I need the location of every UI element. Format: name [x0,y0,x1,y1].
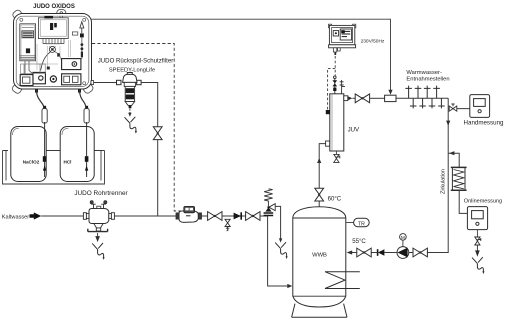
filter drain dashes [129,109,131,114]
suction lance right connector [85,106,88,111]
feed arrow [30,212,42,219]
controller base stripes [20,56,35,59]
mid fittings [47,53,60,69]
JUV body [330,94,344,151]
coil branch arrow [449,151,454,155]
filter head [123,73,137,83]
enclosure inner [16,16,89,86]
water meter flange L [176,213,179,219]
valve V6 [413,248,427,257]
valve V7 [357,248,371,257]
JUV inlet flange [326,141,330,146]
box outlet fitting [91,81,94,85]
separator vent knob left [90,201,96,209]
canister NaClO2 [11,127,46,182]
tube to pumps [41,52,51,71]
handmessung valve [449,104,457,111]
svg-text:Entnahmestellen: Entnahmestellen [406,77,449,83]
hose gland right [78,89,81,93]
flow arrow down [446,121,450,126]
circulation pump [397,247,409,259]
pipe [222,215,246,217]
valve V2 [208,212,222,221]
svg-text:HCl: HCl [64,160,72,165]
manifold pipe [396,97,448,99]
safety discharge pipe [275,206,280,238]
filter ring1 [126,88,134,93]
filter flange right [137,80,142,84]
water meter register [184,206,195,212]
filter drain nipple [129,105,132,108]
lance right marks [85,156,89,170]
suction lance left connector [43,106,46,111]
separator drain outlet [92,243,105,260]
injection fittings [81,43,84,57]
separator funnel [94,224,103,229]
check valve return [378,249,385,256]
JUV top sensor fitting [340,80,345,94]
canister HCl [60,127,94,182]
pump right lower inners [64,76,78,82]
svg-text:Handmessung: Handmessung [464,120,504,127]
svg-text:Kaltwasser: Kaltwasser [2,214,29,220]
JUV top vent fitting [332,76,337,94]
filter flange left [117,80,122,84]
JUV outlet flange [344,96,348,101]
mounting ear bottom-right [82,83,94,95]
svg-text:55°C: 55°C [352,238,366,245]
dosing pump left head [39,76,43,80]
suction lance right head [84,109,89,124]
arrow after JUV [348,96,353,100]
dashed impulse line box to meter [92,44,184,212]
suction lance left head [42,109,47,124]
separator drain pan [88,229,108,232]
label plate [72,32,77,35]
pump right upper head [72,62,77,67]
svg-text:WWB: WWB [312,253,327,259]
controller button [26,48,30,53]
pipe to JUV [319,144,325,189]
arrow into tank [287,284,292,288]
onlinemessung device [467,207,487,230]
faint interior lines [36,40,71,70]
safety valve body [265,204,275,212]
safety discharge arrow [279,238,282,242]
tank top outlet pipe [318,201,320,207]
control line box to flow sensor [92,19,391,90]
arrow into tank right [347,250,353,254]
JUV top dark bits [333,88,336,91]
drip tray [3,151,105,185]
corner screw BR [83,82,86,85]
top right small fitting [60,16,63,18]
lance left marks [43,156,47,170]
dashed sensor cable [328,68,336,109]
separator top center stub [97,206,101,208]
control box body [328,24,355,28]
suction hose right [80,90,87,112]
injection riser arrow [80,22,84,33]
pipe into tank [352,252,357,254]
svg-text:NaClO2: NaClO2 [23,160,40,165]
svg-text:230V/50Hz: 230V/50Hz [361,38,385,44]
pipe [371,252,378,254]
valve V5 [355,94,369,103]
filter drain arrow [128,113,131,117]
flow sensor [385,95,396,101]
analyser drain pipe [476,230,478,237]
mounting ear top-left [12,9,23,20]
control box base [329,45,356,48]
pipe to sensor [370,97,385,99]
JUV lamp connector [326,110,330,114]
controller grille [23,32,33,37]
cold water down leg [268,216,288,286]
pipe separator flange L [83,213,89,220]
svg-text:Warmwasser-: Warmwasser- [406,70,442,76]
handmessung device [470,95,490,118]
pipe to safety tee [260,215,268,217]
suction lance left tube [44,122,46,177]
circulation drop [427,98,448,252]
valve V1 vertical [153,127,162,140]
control box display [340,29,351,40]
internal tubing left [25,61,33,75]
pipe coil to analyser [459,191,467,214]
pipe filter to corner [141,83,158,127]
thermometer TR link [346,222,354,224]
pipe separator to meter [114,215,176,217]
coil branch [448,153,459,167]
JUV drain valve [334,154,340,162]
dosing pump left body [20,72,45,85]
hose gland left [35,89,38,93]
tube right [55,52,61,61]
safety drain outlet [275,242,288,259]
enclosure outer [14,14,92,90]
controller module left [20,24,36,61]
flow arrow up [317,158,321,163]
svg-text:JUV: JUV [348,126,360,133]
safety valve flange [264,213,274,216]
tank skirt [292,304,347,318]
water meter dash [186,215,191,217]
svg-text:Onlinemessung: Onlinemessung [464,199,502,205]
sampling tap [225,219,230,231]
reactor dark caps [50,23,53,30]
controller top detail [22,27,34,29]
pipe meter to valve [202,215,208,217]
heating coil [325,272,360,289]
pump motor [402,240,404,246]
svg-text:JUDO Rückspül-Schutzfilter: JUDO Rückspül-Schutzfilter [98,58,174,65]
thermometer TR [354,218,370,226]
pipe [384,252,397,254]
control box switch [333,31,338,36]
mid shelf unit [21,64,46,74]
water meter flange R [198,213,201,219]
pipe [409,252,413,254]
filter ring2 [126,95,134,100]
filter drain outlet [124,117,137,134]
circulation coil [451,167,467,190]
svg-text:M: M [401,235,405,241]
svg-text:JUDO Rohrtrenner: JUDO Rohrtrenner [74,190,128,197]
pipe valve to main [157,140,159,216]
pipe [352,97,355,99]
svg-text:60°C: 60°C [328,195,342,202]
JUV drain stub [335,151,337,154]
suction hose left [37,90,45,112]
water meter body [179,211,198,222]
dosing pump left inner [23,77,30,83]
reactor module top [38,18,68,39]
separator funnel stem [96,228,100,231]
safety valve spring [264,189,272,207]
taps down [410,98,417,108]
analyser drain valve [475,237,481,245]
filter cone [125,102,134,106]
corner screw BL [20,82,23,85]
pipe separator body [89,209,109,224]
mounting ear top-mid [57,10,66,17]
pipe separator flange R [109,213,115,220]
taps up [405,86,412,99]
analyser drain outlet [472,257,485,274]
filter collar [124,82,135,86]
valve V3 [246,212,260,221]
motor left [50,76,56,82]
JUV inner line [331,94,333,151]
separator drain arrow [96,233,99,241]
injection line [81,38,83,59]
corner screw TL [20,18,23,21]
tank shell [293,207,346,307]
pipe box to filter [92,82,117,84]
check valve [234,212,242,219]
dashed lamp cable [334,56,336,76]
pipe inlet [41,215,83,217]
cable glands [333,48,340,52]
mixing pump center [49,46,55,52]
valve V4 60C [315,188,324,201]
svg-text:TR: TR [358,221,365,227]
arrow into flow sensor [388,90,392,95]
svg-text:JUDO OXIDOS: JUDO OXIDOS [33,4,75,10]
separator vent knob right [101,201,107,209]
analyser drain arrow [476,245,479,255]
handmessung branch [448,108,469,110]
injection valve block [80,33,84,37]
suction lance right tube [86,122,88,177]
mounting ear bottom-left [11,83,23,94]
filter bowl [125,86,134,101]
dosing pump right lower [62,74,81,85]
corner screw TR [83,18,86,21]
manifold comb under reactor [40,39,66,44]
top header bar [44,16,53,19]
dosing pump right upper [62,59,81,70]
svg-text:Zirkulation: Zirkulation [441,169,447,194]
